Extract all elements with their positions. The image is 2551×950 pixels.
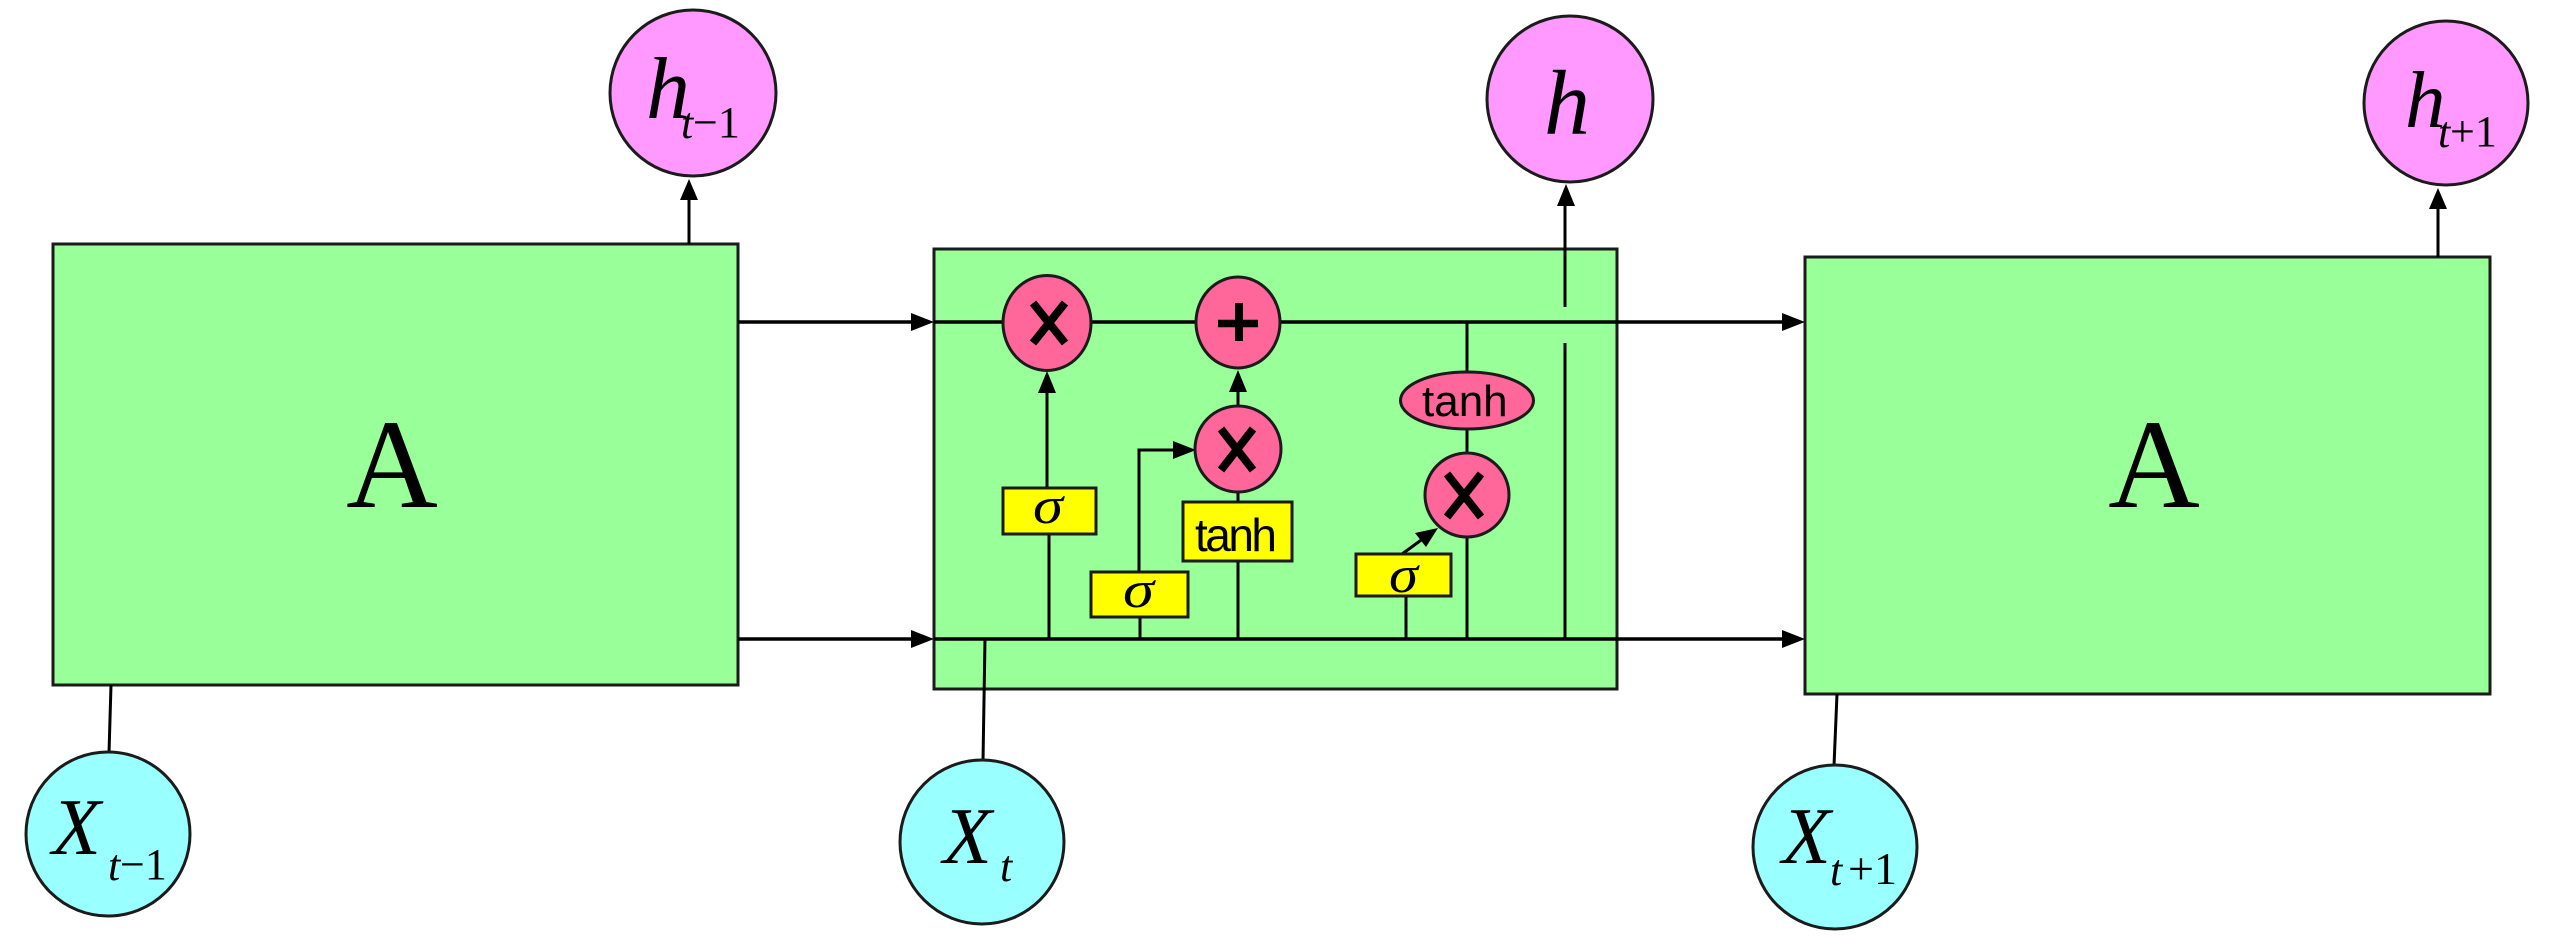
svg-text:t: t [1830,846,1844,895]
svg-text:σ: σ [1033,478,1066,535]
svg-text:+1: +1 [2450,107,2497,156]
svg-text:+1: +1 [1848,843,1897,894]
svg-text:tanh: tanh [1195,509,1277,561]
svg-text:A: A [346,395,438,535]
svg-text:σ: σ [1389,547,1421,604]
svg-text:tanh: tanh [1422,377,1508,426]
svg-text:A: A [2108,395,2200,535]
svg-text:X: X [1779,793,1834,881]
svg-text:−1: −1 [693,98,740,147]
svg-text:t: t [1000,842,1014,891]
svg-text:h: h [1544,52,1590,154]
svg-text:X: X [49,784,104,872]
svg-text:−1: −1 [120,840,167,889]
svg-text:σ: σ [1123,562,1157,619]
svg-text:X: X [940,793,995,881]
